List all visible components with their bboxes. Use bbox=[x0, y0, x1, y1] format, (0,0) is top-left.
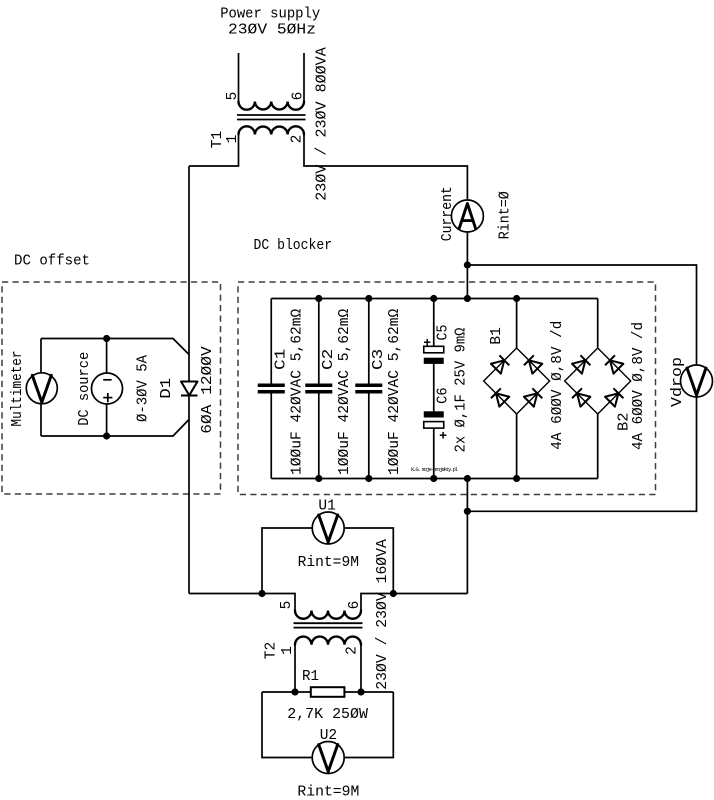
capacitor C6 bbox=[424, 411, 444, 428]
wire B1 top stub bbox=[516, 299, 518, 349]
wire U2 right branch bbox=[344, 692, 393, 758]
svg-text:D1: D1 bbox=[159, 378, 175, 399]
label C2 bbox=[321, 349, 337, 370]
multimeter V bbox=[26, 373, 57, 404]
svg-text:1: 1 bbox=[280, 646, 296, 655]
dc blocker dashed box bbox=[238, 282, 656, 495]
svg-text:K.G. moje-projekty.pl: K.G. moje-projekty.pl bbox=[411, 466, 459, 473]
wire U2 left branch bbox=[262, 692, 312, 758]
wire lower left segment bbox=[189, 594, 295, 611]
label B2 bbox=[617, 412, 633, 431]
svg-text:Current: Current bbox=[440, 186, 456, 241]
node C2 top bbox=[315, 295, 322, 302]
svg-text:C3: C3 bbox=[371, 349, 387, 370]
ammeter Current bbox=[451, 200, 483, 232]
voltmeter U2 bbox=[312, 742, 344, 774]
svg-text:Ø-3ØV 5A: Ø-3ØV 5A bbox=[136, 355, 152, 422]
svg-text:6: 6 bbox=[291, 92, 307, 101]
wire left main vertical upper bbox=[188, 166, 190, 382]
label T1 pin 2 bbox=[290, 135, 306, 144]
label DC source bbox=[77, 352, 93, 426]
label R1 bbox=[302, 669, 319, 685]
wire ammeter to bus bbox=[466, 232, 468, 299]
label T1 pin 6 bbox=[291, 92, 307, 101]
wire C3 top bbox=[368, 299, 370, 384]
capacitor C1 bbox=[258, 384, 285, 394]
wire Vdrop return bbox=[467, 397, 696, 512]
label C6 plus bbox=[440, 432, 447, 439]
svg-text:1ØØuF 42ØVAC 5,62mΩ: 1ØØuF 42ØVAC 5,62mΩ bbox=[337, 308, 353, 475]
voltmeter U1 bbox=[312, 512, 344, 544]
svg-text:4A 6ØØV Ø,8V /d: 4A 6ØØV Ø,8V /d bbox=[550, 321, 566, 450]
resistor R1 bbox=[311, 687, 345, 697]
label B1 bbox=[489, 327, 505, 344]
svg-text:Vdrop: Vdrop bbox=[670, 357, 686, 407]
svg-text:U2: U2 bbox=[320, 728, 337, 744]
wire T1 pin2 to ammeter bbox=[304, 135, 467, 201]
capacitor C5 bbox=[424, 346, 444, 364]
node C3 bottom bbox=[365, 475, 372, 482]
capacitor C3 bbox=[355, 384, 382, 394]
wire T1 pin6 stub bbox=[303, 53, 305, 102]
label C2 value bbox=[337, 308, 353, 475]
svg-text:Rint=9M: Rint=9M bbox=[298, 555, 359, 571]
svg-text:23ØV / 23ØV 8ØØVA: 23ØV / 23ØV 8ØØVA bbox=[315, 47, 331, 201]
label U2 bbox=[320, 728, 337, 744]
node C3 top bbox=[365, 295, 372, 302]
wire R1 right bbox=[344, 691, 393, 693]
wire T1 pin5 stub bbox=[238, 53, 240, 102]
svg-text:C5: C5 bbox=[436, 325, 452, 341]
dc source symbol bbox=[92, 373, 123, 404]
node bottom bus ammeter bbox=[464, 475, 471, 482]
svg-text:Multimeter: Multimeter bbox=[10, 351, 26, 427]
svg-text:DC blocker: DC blocker bbox=[254, 238, 333, 254]
svg-text:1ØØuF 42ØVAC 5,62mΩ: 1ØØuF 42ØVAC 5,62mΩ bbox=[387, 308, 403, 475]
svg-text:Power supply: Power supply bbox=[220, 7, 320, 23]
svg-text:Rint=Ø: Rint=Ø bbox=[498, 191, 514, 239]
wire multimeter top stub bbox=[40, 339, 42, 373]
label D1 value 60A 1200V bbox=[200, 346, 216, 434]
label 0-30V 5A bbox=[136, 355, 152, 422]
label B1 value bbox=[550, 321, 566, 450]
dc offset dashed box bbox=[2, 282, 221, 494]
label C1 value bbox=[290, 308, 306, 475]
label T2 pin 5 bbox=[279, 601, 295, 610]
svg-text:4A 6ØØV Ø,8V /d: 4A 6ØØV Ø,8V /d bbox=[631, 322, 647, 450]
svg-text:DC source: DC source bbox=[77, 352, 93, 426]
wire C5 top bbox=[433, 299, 435, 347]
wire C2 top bbox=[318, 299, 320, 384]
svg-text:B1: B1 bbox=[489, 327, 505, 344]
transformer T1 secondary winding bbox=[239, 126, 305, 134]
wire C2 bottom bbox=[318, 394, 320, 479]
wire dc source bottom stub bbox=[106, 404, 108, 436]
svg-text:5: 5 bbox=[225, 92, 241, 101]
label T2 pin 1 bbox=[280, 646, 296, 655]
label B2 value bbox=[631, 322, 647, 450]
node C5 top bbox=[430, 295, 437, 302]
svg-text:5: 5 bbox=[279, 601, 295, 610]
wire multimeter bottom stub bbox=[40, 404, 42, 436]
svg-text:Rint=9M: Rint=9M bbox=[297, 785, 359, 800]
wire U1 right branch bbox=[344, 528, 393, 594]
wire B2 top stub bbox=[597, 299, 599, 349]
wire U1 left branch bbox=[262, 528, 312, 594]
node ammeter-vdrop junction bbox=[464, 261, 471, 268]
label C5 plus bbox=[424, 339, 430, 345]
label T2 pin 6 bbox=[347, 601, 363, 610]
transformer T1 core bbox=[237, 115, 306, 120]
wire C3 bottom bbox=[368, 394, 370, 479]
bridge rectifier B2 bbox=[565, 348, 631, 414]
wire capacitor bottom bus bbox=[271, 478, 597, 480]
transformer T2 core bbox=[294, 623, 363, 627]
wire T2 pin1 down bbox=[294, 645, 296, 692]
node top bus ammeter bbox=[464, 295, 471, 302]
svg-text:T1: T1 bbox=[210, 131, 226, 148]
wire T1 pin1 to left rail bbox=[189, 135, 239, 167]
node Vdrop return junction bbox=[464, 508, 471, 515]
voltmeter Vdrop bbox=[681, 365, 713, 397]
watermark bbox=[411, 466, 459, 473]
transformer T2 primary winding bbox=[295, 611, 361, 619]
svg-text:C6: C6 bbox=[436, 387, 452, 404]
wire C1 top bbox=[270, 299, 272, 384]
node dc source top bbox=[103, 335, 110, 342]
node U1 left bbox=[258, 590, 265, 597]
label Current bbox=[440, 186, 456, 241]
wire to Vdrop top bbox=[467, 265, 696, 365]
wire capacitor top bus bbox=[271, 298, 597, 300]
label Rint=0 bbox=[498, 191, 514, 239]
label T1 pin 5 bbox=[225, 92, 241, 101]
wire R1 left bbox=[262, 691, 311, 693]
svg-text:C1: C1 bbox=[274, 349, 290, 370]
bridge rectifier B1 bbox=[484, 348, 550, 414]
label D1 bbox=[159, 378, 175, 399]
wire dc offset top rail bbox=[41, 339, 189, 355]
node B1 bottom bbox=[513, 475, 520, 482]
node R1 left bbox=[291, 688, 298, 695]
label C3 value bbox=[387, 308, 403, 475]
label C3 bbox=[371, 349, 387, 370]
label C5 C6 value bbox=[454, 327, 470, 452]
label Vdrop bbox=[670, 357, 686, 407]
svg-text:2: 2 bbox=[290, 135, 306, 144]
label U1 bbox=[318, 498, 335, 514]
wire C1 bottom bbox=[270, 394, 272, 479]
capacitor C2 bbox=[305, 384, 332, 394]
svg-text:2: 2 bbox=[345, 646, 361, 655]
wire dc offset bottom rail bbox=[41, 420, 189, 437]
svg-text:T2: T2 bbox=[264, 642, 280, 659]
transformer T2 secondary winding bbox=[295, 637, 361, 645]
label T2 pin 2 bbox=[345, 646, 361, 655]
wire bottom bus to lower wire bbox=[466, 479, 468, 594]
diode D1 bbox=[181, 382, 198, 396]
svg-text:23ØV 5ØHz: 23ØV 5ØHz bbox=[228, 23, 316, 39]
wire left main vertical lower bbox=[188, 396, 190, 594]
node C2 bottom bbox=[315, 475, 322, 482]
node B1 top bbox=[513, 295, 520, 302]
label C1 bbox=[274, 349, 290, 370]
svg-text:U1: U1 bbox=[318, 498, 335, 514]
svg-text:6: 6 bbox=[347, 601, 363, 610]
svg-text:2x Ø,1F 25V 9mΩ: 2x Ø,1F 25V 9mΩ bbox=[454, 327, 470, 452]
wire lower right segment bbox=[361, 594, 467, 611]
node R1 right bbox=[357, 688, 364, 695]
node dc source bottom bbox=[103, 432, 110, 439]
label T1 pin 1 bbox=[225, 135, 241, 144]
node C6 bottom bbox=[430, 475, 437, 482]
label R1 value 2,7K 250W bbox=[287, 707, 368, 723]
svg-text:1ØØuF 42ØVAC 5,62mΩ: 1ØØuF 42ØVAC 5,62mΩ bbox=[290, 308, 306, 475]
label U2 Rint=9M bbox=[297, 785, 359, 800]
node U1 right bbox=[390, 590, 397, 597]
label C5 bbox=[436, 325, 452, 341]
svg-text:DC offset: DC offset bbox=[14, 254, 90, 270]
label T2 bbox=[264, 642, 280, 659]
label DC blocker bbox=[254, 238, 333, 254]
label Multimeter bbox=[10, 351, 26, 427]
svg-text:R1: R1 bbox=[302, 669, 319, 685]
wire T2 pin2 down bbox=[360, 645, 362, 692]
transformer T1 primary winding bbox=[239, 102, 305, 110]
wire B2 bottom stub bbox=[597, 414, 599, 479]
label C6 bbox=[436, 387, 452, 404]
svg-text:2,7K 25ØW: 2,7K 25ØW bbox=[287, 707, 368, 723]
wire C6 bottom bbox=[433, 428, 435, 478]
wire B1 bottom stub bbox=[516, 414, 518, 479]
label DC offset bbox=[14, 254, 90, 270]
wire dc source top stub bbox=[106, 339, 108, 374]
svg-text:23ØV / 23ØV 16ØVA: 23ØV / 23ØV 16ØVA bbox=[375, 539, 391, 690]
label T1 value 230V / 230V 800VA bbox=[315, 47, 331, 201]
wire C5 to C6 bbox=[433, 364, 435, 411]
svg-text:6ØA 12ØØV: 6ØA 12ØØV bbox=[200, 346, 216, 434]
label U1 Rint=9M bbox=[298, 555, 359, 571]
svg-text:C2: C2 bbox=[321, 349, 337, 370]
label T1 bbox=[210, 131, 226, 148]
label T2 value 230V / 230V 160VA bbox=[375, 539, 391, 690]
text power supply title bbox=[220, 7, 320, 39]
